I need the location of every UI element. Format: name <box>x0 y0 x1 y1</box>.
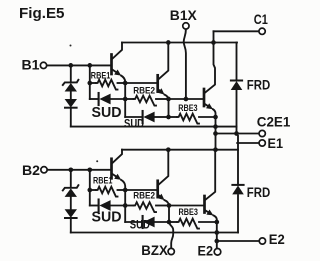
svg-text:RBE3: RBE3 <box>179 207 198 218</box>
svg-text:E2: E2 <box>269 232 285 247</box>
Q4 collector <box>113 150 122 163</box>
Q5 emitter arrow <box>158 194 161 197</box>
wire node to SUD diode 2 <box>125 116 142 118</box>
wire SUD4 to N3 (lower) <box>155 221 169 223</box>
Q1 collector <box>113 43 122 59</box>
resistor RBE3 (lower) <box>177 219 199 229</box>
wire N3 to RBE3 (lower) <box>169 221 177 223</box>
svg-text:C1: C1 <box>254 12 268 27</box>
wire to E1 <box>237 142 259 144</box>
svg-text:SUD: SUD <box>130 218 150 231</box>
wire E2 rail <box>71 232 238 234</box>
svg-text:RBE1: RBE1 <box>91 71 111 82</box>
junction B2/zener <box>68 167 73 172</box>
transistor Q3 base bar <box>203 89 206 106</box>
transistor Q5 base bar <box>156 181 159 197</box>
wire BZX (crosses E2 rail) <box>169 222 173 248</box>
junction N2 (lower) <box>123 203 128 208</box>
junction N3 <box>166 97 171 102</box>
zener diode D1 (B1 clamp) <box>63 80 79 85</box>
wire Q1 emitter node vertical <box>121 76 125 117</box>
wire node to RBE2 (lower) <box>125 205 133 207</box>
wire Q4 emitter node vertical <box>121 180 125 222</box>
wire between clamp diodes (lower) <box>70 197 72 209</box>
wire FRD2 to E2 rail <box>237 195 239 232</box>
free-wheel diode FRD2 <box>232 184 243 186</box>
junction N3 lower <box>166 115 171 120</box>
wire Q2 emitter to node <box>165 95 169 99</box>
svg-text:Fig.E5: Fig.E5 <box>19 6 65 22</box>
junction Q2 collector on rail <box>166 40 171 45</box>
svg-text:E1: E1 <box>268 136 284 151</box>
wire Q3 emitter / C2E1 step vertical <box>213 109 216 150</box>
speed-up diode SUD2 <box>142 111 144 123</box>
wire RBE1 to node <box>118 82 126 84</box>
svg-text:SUD: SUD <box>92 208 122 225</box>
wire Q6 emitter vertical <box>213 215 216 248</box>
junction N2 <box>123 97 128 102</box>
terminal C1 <box>259 28 265 34</box>
speed-up diode SUD4 <box>142 216 144 228</box>
terminal BZX <box>168 248 174 254</box>
Q2 collector <box>159 43 169 79</box>
svg-text:C2E1: C2E1 <box>257 114 291 129</box>
wire B1X (crosses rail) <box>184 30 186 99</box>
junction RBE1 right <box>123 81 128 86</box>
diode D4 (B2 clamp) <box>65 209 77 218</box>
junction B1/zener <box>68 63 73 68</box>
wire FRD1 to C2E1 node <box>236 90 238 133</box>
wire C1 step <box>213 31 215 42</box>
svg-text:BZX: BZX <box>141 243 168 258</box>
junction E1 rail <box>213 124 218 129</box>
svg-text:SUD: SUD <box>92 104 122 121</box>
resistor RBE1 (lower) <box>96 187 118 197</box>
Q1 emitter arrow <box>113 70 116 72</box>
junction RBE3 right (lower) <box>214 220 219 225</box>
wire B2 to Q4 base <box>48 169 111 171</box>
transistor Q4 base bar <box>110 159 113 179</box>
speed-up diode SUD3 <box>98 200 100 212</box>
resistor RBE2 <box>134 96 157 106</box>
wire RBE1 to node (lower) <box>118 189 126 191</box>
junction FRD/C2E1 <box>234 131 239 136</box>
Q4 emitter arrow <box>113 174 116 176</box>
wire to C1 <box>214 30 259 32</box>
Q6 emitter arrow <box>206 211 208 212</box>
wire C2E1 node to FRD2 <box>237 134 239 185</box>
wire to RBE1 <box>90 82 96 84</box>
wire Q3 base line <box>169 98 203 100</box>
svg-text:B1: B1 <box>22 58 41 73</box>
terminal B1 <box>40 62 46 68</box>
Q2 emitter arrow <box>158 89 161 92</box>
zener diode D3 (B2 clamp) <box>63 185 79 190</box>
wire RBE2 to Q2 emitter node <box>156 98 169 100</box>
svg-text:RBE2: RBE2 <box>133 85 155 96</box>
Q6 collector <box>206 150 216 200</box>
wire Q5 emitter to node <box>165 200 170 205</box>
wire node to SUD diode 4 <box>125 221 142 223</box>
wire SUD1 to node <box>111 98 126 100</box>
wire RBE3 to E2 node <box>199 221 217 223</box>
junction C2E1 line <box>213 131 218 136</box>
wire Q2 base <box>125 82 156 84</box>
terminal E2 (right) <box>259 238 265 244</box>
wire N3 vertical <box>168 99 170 117</box>
diode D2 (B1 clamp) <box>65 99 77 108</box>
junction B1/RBE1 <box>87 63 92 68</box>
terminal E1 <box>259 140 265 146</box>
junction E2 line <box>214 239 219 244</box>
terminal B1X <box>183 23 189 29</box>
terminal C2E1 <box>259 130 265 136</box>
wire between clamp diodes <box>70 92 72 100</box>
junction RBE3 right <box>213 115 218 120</box>
wire N3 to RBE3 <box>169 116 178 118</box>
transistor Q1 base bar <box>110 55 113 75</box>
Q3 collector <box>205 43 215 93</box>
svg-text:RBE1: RBE1 <box>93 175 113 186</box>
wire to E2 (right) <box>217 240 259 242</box>
speed-up diode SUD1 <box>98 93 100 105</box>
terminal E2 (bottom) <box>214 249 221 256</box>
wire E1 rail <box>71 126 237 128</box>
scan speck <box>70 45 72 47</box>
resistor RBE1 <box>96 80 118 90</box>
wire N3 vertical (lower) <box>168 206 170 223</box>
junction B2/RBE1 <box>87 167 92 172</box>
free-wheel diode FRD1 <box>231 80 242 82</box>
svg-text:FRD: FRD <box>247 185 271 200</box>
wire SUD3 to node <box>111 205 126 207</box>
junction RBE1 left (lower) <box>87 188 92 193</box>
svg-text:E2: E2 <box>198 243 214 258</box>
junction N3 (lower) <box>167 203 172 208</box>
Q5 collector <box>159 150 169 185</box>
terminal B2 <box>41 167 47 173</box>
wire rail to FRD1 <box>236 43 238 81</box>
resistor RBE3 <box>177 114 199 124</box>
wire to RBE1 (lower) <box>90 189 96 191</box>
wire Q5 base <box>125 189 156 191</box>
junction Q5 collector on rail <box>166 147 171 152</box>
svg-text:SUD: SUD <box>124 118 144 131</box>
wire RBE3 to E1 node <box>199 116 216 118</box>
junction C1 step on rail <box>211 40 216 45</box>
wire to SUD diode 3 <box>90 205 99 207</box>
wire to E1 rail <box>70 108 72 127</box>
wire RBE2 to Q5 emitter node <box>156 205 169 207</box>
Q3 emitter arrow <box>205 104 208 106</box>
wire RBE1 left leg (lower) <box>89 170 91 206</box>
svg-text:FRD: FRD <box>247 78 271 93</box>
wire to SUD diode 1 <box>90 98 99 100</box>
transistor Q2 base bar <box>156 75 159 91</box>
junction RBE1 right (lower) <box>123 188 128 193</box>
junction C2E1 step on rail <box>213 147 218 152</box>
wire B1 to Q1 base <box>47 64 110 66</box>
wire Q6 base line <box>169 205 203 207</box>
svg-text:B2: B2 <box>22 163 40 178</box>
wire SUD2 to N3 <box>155 116 169 118</box>
svg-text:RBE2: RBE2 <box>133 191 155 202</box>
transistor Q6 base bar <box>203 196 206 213</box>
junction N3/BZX <box>167 220 172 225</box>
resistor RBE2 (lower) <box>134 202 157 212</box>
wire C rail (top) <box>122 42 237 44</box>
wire RBE1 left leg <box>89 65 91 99</box>
junction B1X on base line <box>184 97 189 102</box>
wire to zener (lower) <box>70 170 72 188</box>
wire to C2E1 <box>216 133 259 135</box>
svg-text:RBE3: RBE3 <box>178 103 197 114</box>
scan speck <box>96 160 98 162</box>
wire C2 rail (bottom) <box>122 149 238 151</box>
wire node to RBE2 <box>125 98 133 100</box>
svg-text:B1X: B1X <box>170 8 197 23</box>
wire to zener <box>70 65 72 82</box>
junction RBE1 left <box>87 81 92 86</box>
junction E2 rail crossing <box>214 230 219 235</box>
wire to E2 rail <box>70 218 72 232</box>
